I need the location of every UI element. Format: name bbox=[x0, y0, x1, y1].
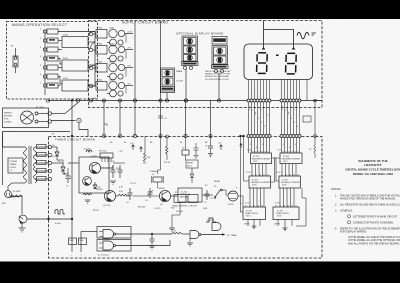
wire color label W3 bbox=[37, 161, 47, 165]
wire drop E23 to busA bbox=[166, 93, 168, 101]
wire column x185 bbox=[185, 101, 187, 137]
bus A (supply board bottom rail) bbox=[48, 100, 322, 102]
wire tap6 to J3 bbox=[58, 77, 62, 85]
terminal E3 bbox=[43, 48, 46, 51]
svg-text:.02: .02 bbox=[164, 118, 167, 120]
wire bundle IC202-IC203 bbox=[249, 188, 251, 207]
diode D6 bbox=[62, 163, 64, 167]
nand gate IC211b bbox=[103, 241, 114, 250]
plus sign bbox=[64, 173, 66, 175]
svg-text:CONNECTOR POINTS ON BOARD.: CONNECTOR POINTS ON BOARD. bbox=[353, 221, 394, 224]
fuse F1 bbox=[13, 56, 18, 67]
digit 2 seven-segment bbox=[286, 53, 297, 74]
junction x104 busB bbox=[102, 134, 105, 137]
svg-text:4: 4 bbox=[291, 118, 292, 120]
junction x72 busB bbox=[71, 135, 73, 137]
digit cell V101b bbox=[184, 46, 197, 54]
jumper block J2 bbox=[62, 60, 88, 71]
capacitor C6 trimmer bbox=[149, 188, 151, 192]
svg-text:R14: R14 bbox=[116, 168, 119, 170]
svg-text:S2: S2 bbox=[205, 185, 207, 187]
ground G7 bbox=[169, 227, 175, 229]
svg-text:Q102: Q102 bbox=[109, 44, 115, 46]
display module V101 outline bbox=[182, 36, 198, 62]
component C8 at x210 bbox=[210, 136, 212, 146]
digit cell V102b bbox=[214, 56, 227, 64]
label U2 bbox=[187, 163, 194, 168]
wire J3 to right bbox=[88, 85, 95, 87]
resistor R30 vertical bbox=[314, 145, 316, 153]
svg-text:c: c bbox=[261, 109, 262, 111]
spare cluster E23 outline bbox=[161, 68, 175, 93]
wire left vertical bbox=[2, 132, 4, 186]
wire crossover to supply edge 2 bbox=[89, 42, 95, 50]
rectifier D13 bbox=[96, 64, 107, 73]
wire vertical tap bus bbox=[44, 30, 46, 95]
IC 205 counter bbox=[279, 176, 301, 188]
wire color label W2 bbox=[37, 153, 47, 157]
svg-text:4 13 8: 4 13 8 bbox=[275, 203, 280, 205]
svg-text:ZD1: ZD1 bbox=[97, 187, 101, 189]
svg-text:9: 9 bbox=[236, 188, 237, 190]
svg-text:240V: 240V bbox=[63, 35, 69, 37]
jumper block J1 bbox=[62, 37, 88, 48]
wire color label W4 bbox=[37, 169, 47, 173]
svg-text:E7: E7 bbox=[180, 142, 182, 144]
SECTION: main display bbox=[244, 21, 316, 80]
rectifier D12 bbox=[96, 46, 107, 55]
svg-text:.01: .01 bbox=[126, 202, 129, 204]
wire bundle tiny labels bbox=[249, 109, 295, 114]
rectifier D11 bbox=[96, 30, 107, 39]
connector circles row busA right bbox=[280, 99, 283, 102]
svg-text:D101: D101 bbox=[97, 28, 103, 30]
svg-text:-5V: -5V bbox=[127, 84, 131, 86]
wire R25 to gate bbox=[183, 233, 190, 235]
svg-text:TRANS: TRANS bbox=[10, 163, 17, 166]
wire left drop to transformer primary bbox=[3, 131, 71, 133]
wire into display left bbox=[263, 21, 265, 50]
capacitor C3 bbox=[119, 165, 121, 170]
svg-text:b: b bbox=[255, 112, 256, 114]
svg-text:8: 8 bbox=[256, 147, 257, 149]
svg-text:RP1 10K: RP1 10K bbox=[99, 151, 107, 153]
SECTION: power transformer area bbox=[3, 99, 98, 256]
svg-text:MODELS GC-1092-D AND: MODELS GC-1092-D AND bbox=[205, 75, 229, 78]
svg-text:E9: E9 bbox=[52, 134, 54, 136]
edge connector circles bbox=[48, 145, 51, 148]
resistor R25 bbox=[172, 232, 183, 234]
wire stubs below IC203 bbox=[247, 220, 249, 227]
svg-text:3: 3 bbox=[255, 114, 256, 116]
svg-text:WIRING: WIRING bbox=[4, 113, 12, 115]
terminal E5 bbox=[43, 66, 46, 69]
wire bundle IC204-IC205 bbox=[281, 164, 283, 177]
wire crossover between columns bbox=[272, 158, 280, 181]
svg-text:6: 6 bbox=[262, 144, 263, 146]
SECTION: right border bbox=[303, 80, 322, 159]
terminal E7 bbox=[43, 84, 46, 87]
svg-text:417-801: 417-801 bbox=[176, 211, 183, 213]
wire IC212 out bbox=[201, 234, 222, 236]
resistor R10 vertical bbox=[143, 153, 146, 161]
svg-text:POWER: POWER bbox=[10, 161, 18, 163]
svg-text:3: 3 bbox=[288, 114, 289, 116]
diagonal transposition wire bbox=[65, 103, 78, 114]
wire x120 drop bbox=[119, 101, 121, 137]
wire crystal drop bbox=[157, 182, 159, 188]
svg-text:MM5369: MM5369 bbox=[180, 197, 189, 199]
svg-text:TRIAC CONTROL CIRCUIT: TRIAC CONTROL CIRCUIT bbox=[172, 205, 198, 208]
svg-text:+12V: +12V bbox=[127, 32, 133, 34]
wire stub x315 into busB junction bbox=[314, 135, 317, 138]
svg-text:3.: 3. bbox=[335, 210, 337, 213]
junction x104 busA bbox=[102, 99, 105, 102]
capacitor C2 bbox=[112, 165, 114, 170]
transistor Q7 bottom-left bbox=[19, 215, 27, 223]
display module V102 header bbox=[212, 37, 227, 45]
wire resistor to bus bbox=[8, 196, 22, 214]
svg-text:R15 1K: R15 1K bbox=[164, 162, 171, 164]
wire gate1 out bbox=[116, 233, 172, 235]
crystal Y1 bbox=[153, 177, 162, 182]
module V102 label strip bbox=[212, 65, 229, 69]
resistor R11 bbox=[118, 194, 127, 196]
svg-text:RESET: RESET bbox=[187, 163, 194, 165]
svg-text:GND: GND bbox=[92, 98, 97, 100]
svg-text:Q103: Q103 bbox=[109, 62, 115, 64]
wire plug to board edge lower bbox=[38, 121, 48, 123]
svg-text:E8: E8 bbox=[205, 142, 207, 144]
svg-text:Q101: Q101 bbox=[109, 28, 115, 30]
wire drop E21 to busA bbox=[185, 69, 187, 100]
svg-text:2: 2 bbox=[252, 110, 253, 112]
wire column x185 down bbox=[185, 136, 187, 150]
capacitor C1 electrolytic bbox=[67, 172, 69, 176]
spare label strip bbox=[161, 87, 175, 92]
wire tap5 bbox=[58, 67, 62, 69]
junction circle bbox=[314, 99, 317, 102]
wire x81 to gate input bbox=[81, 231, 97, 233]
svg-text:6: 6 bbox=[264, 126, 265, 128]
resistor label box RB bbox=[79, 238, 87, 245]
colon mark bbox=[276, 55, 279, 57]
cell labels bbox=[97, 28, 133, 86]
svg-text:9: 9 bbox=[250, 144, 251, 146]
digit cell V102a bbox=[214, 47, 227, 55]
resistor R4 bbox=[83, 193, 92, 195]
svg-text:SYMBOLS:: SYMBOLS: bbox=[340, 210, 353, 213]
arrow lamp right bbox=[292, 47, 296, 50]
pins IC204 top bbox=[282, 151, 284, 153]
IC 203 latch bbox=[243, 207, 266, 220]
svg-text:D5: D5 bbox=[52, 156, 54, 158]
+5 arrow A2 bbox=[140, 147, 143, 152]
ground G4 bbox=[208, 153, 213, 155]
junction circles bus B bbox=[118, 134, 121, 137]
mains operation select dashed box bbox=[7, 22, 98, 100]
diode D9 bbox=[190, 174, 194, 177]
wire plug to board edge upper bbox=[38, 113, 48, 115]
terminal E4 bbox=[43, 57, 46, 60]
svg-text:UNITS: UNITS bbox=[274, 224, 281, 226]
resistor R1 bbox=[11, 195, 22, 197]
label line cord bbox=[4, 113, 12, 124]
terminal E2 bbox=[43, 39, 46, 42]
ground C11 bbox=[194, 155, 199, 157]
junction bbox=[151, 233, 153, 235]
wire tap7 bbox=[58, 85, 60, 87]
wire lower plug lead bbox=[51, 120, 75, 122]
tiny tap labels bbox=[40, 29, 69, 85]
SECTION: IC grid bbox=[239, 135, 302, 231]
wire drop bbox=[314, 153, 316, 158]
svg-text:D5: D5 bbox=[52, 145, 54, 147]
SECTION: regulator cluster bbox=[52, 147, 126, 203]
wire primary bottom bbox=[12, 182, 25, 184]
svg-text:C6 5-25: C6 5-25 bbox=[154, 208, 161, 210]
svg-text:120VAC: 120VAC bbox=[4, 121, 12, 124]
wire neon bbox=[8, 183, 12, 191]
wire cell1 bbox=[125, 33, 133, 35]
transistor Q3 bbox=[104, 190, 115, 201]
svg-text:SUPPLY CIRCUIT BOARD: SUPPLY CIRCUIT BOARD bbox=[122, 20, 169, 24]
step waveform icon bbox=[206, 218, 216, 222]
svg-text:COLON: COLON bbox=[176, 81, 183, 83]
SECTION: mains select interior bbox=[11, 23, 95, 95]
connector circles row busA left bbox=[247, 99, 301, 138]
SECTION: scatter labels bbox=[2, 98, 312, 213]
supply circuit board dashed outline bbox=[89, 21, 323, 108]
jumper block J3 bbox=[62, 80, 88, 91]
svg-text:2: 2 bbox=[285, 110, 286, 112]
edge connector E12 bbox=[89, 48, 93, 52]
wire tap2 to J1 bbox=[58, 40, 62, 42]
svg-text:8: 8 bbox=[289, 147, 290, 149]
SECTION: line input bbox=[3, 99, 89, 185]
svg-text:6 2 3 7: 6 2 3 7 bbox=[246, 172, 252, 174]
connector circles row busB right bbox=[280, 135, 283, 138]
wire Q7 base row bbox=[27, 218, 48, 220]
wire drop E22 to busA bbox=[218, 73, 220, 101]
svg-text:.01: .01 bbox=[210, 198, 213, 200]
svg-text:R18: R18 bbox=[171, 208, 174, 210]
svg-text:MODEL GC-1092-D/GC-1093: MODEL GC-1092-D/GC-1093 bbox=[353, 172, 393, 176]
sine symbol bbox=[297, 32, 309, 39]
wire color label W5 bbox=[37, 177, 47, 181]
pins IC206 top bbox=[275, 205, 277, 207]
svg-text:C1: C1 bbox=[70, 177, 72, 179]
svg-text:7: 7 bbox=[267, 115, 268, 117]
vertical rail x307 bbox=[306, 80, 308, 101]
wire column x210 bbox=[210, 101, 212, 137]
wire bundle right bbox=[281, 80, 283, 154]
capacitor C12 bbox=[158, 115, 163, 117]
IC 202 counter bbox=[249, 176, 271, 188]
junction x72 y219 bbox=[71, 218, 73, 220]
wire crossover to supply edge 3 bbox=[89, 65, 95, 68]
svg-text:6 2 3 7: 6 2 3 7 bbox=[276, 172, 282, 174]
svg-text:DECADE COUNTER: DECADE COUNTER bbox=[251, 181, 270, 184]
relay driver box K2 bbox=[188, 195, 198, 203]
wire tap4 to J2 bbox=[58, 59, 62, 65]
resistor pack RP1 bbox=[100, 153, 113, 158]
ground IC203 bbox=[252, 226, 257, 229]
gate IC209a round bbox=[228, 191, 238, 201]
resistor R15 vertical bbox=[166, 137, 168, 147]
svg-text:DECADE COUNTER: DECADE COUNTER bbox=[281, 181, 300, 184]
junction x72 busA bbox=[71, 99, 73, 101]
note 3a circle bbox=[347, 215, 350, 218]
svg-text:6: 6 bbox=[295, 144, 296, 146]
arrow out bbox=[222, 233, 225, 236]
note 3b circle bbox=[347, 221, 350, 224]
wire V1 drop bbox=[79, 123, 88, 137]
waveform icon 120Hz bbox=[86, 150, 92, 152]
+5 arrow A1 bbox=[132, 145, 135, 150]
svg-text:3.58MHz: 3.58MHz bbox=[150, 171, 158, 173]
svg-text:+5V: +5V bbox=[111, 161, 115, 163]
wire Q7 collector bbox=[21, 223, 23, 228]
wire cell3 bbox=[125, 67, 133, 69]
svg-text:+5V: +5V bbox=[127, 48, 131, 50]
wire junction at 48,100 bbox=[46, 99, 49, 102]
SECTION: bottom gate cluster bbox=[97, 188, 306, 257]
junction circle E8 bbox=[76, 99, 79, 102]
module V102 pins bbox=[214, 69, 217, 72]
SECTION: optional display board bbox=[161, 32, 232, 103]
svg-text:4: 4 bbox=[258, 118, 259, 120]
relay driver box K1 bbox=[174, 195, 186, 203]
digit 1 seven-segment bbox=[257, 53, 268, 74]
capacitor C5 bbox=[129, 188, 131, 193]
svg-text:Q3 OSC: Q3 OSC bbox=[103, 205, 111, 207]
wire crossover to supply edge 1 bbox=[89, 32, 95, 35]
svg-text:MAINS OPERATION SELECT: MAINS OPERATION SELECT bbox=[12, 23, 67, 27]
edge connector E14 bbox=[89, 84, 93, 88]
svg-text:2N3904: 2N3904 bbox=[96, 189, 103, 191]
svg-text:4.: 4. bbox=[335, 228, 337, 231]
svg-text:D102: D102 bbox=[97, 44, 103, 46]
svg-text:120V: 120V bbox=[63, 78, 69, 80]
wire column x135 bbox=[134, 21, 136, 137]
svg-text:R13 47: R13 47 bbox=[93, 210, 99, 212]
transformer T1 primary winding bbox=[24, 147, 27, 183]
svg-text:TIMER CIRCUIT BOARD: TIMER CIRCUIT BOARD bbox=[55, 138, 96, 142]
wire U2 down bbox=[191, 168, 193, 174]
wire into display right bbox=[264, 30, 294, 50]
svg-text:4 13 8: 4 13 8 bbox=[245, 203, 250, 205]
wire bundle IC205-IC206 bbox=[279, 188, 281, 207]
connector circles at box right bbox=[48, 112, 51, 115]
pins IC201 top bbox=[252, 151, 254, 153]
ground G1 bbox=[19, 227, 26, 229]
IC 201 segment driver bbox=[251, 153, 272, 164]
svg-text:C1: C1 bbox=[66, 186, 68, 188]
svg-text:C5 .01: C5 .01 bbox=[130, 183, 136, 185]
pins IC203 top bbox=[245, 205, 247, 207]
rectifier D14 bbox=[96, 82, 107, 91]
SECTION: ic pin ticks bbox=[246, 151, 298, 207]
svg-text:1: 1 bbox=[249, 106, 250, 108]
SECTION: notes block bbox=[331, 187, 400, 245]
edge connector E11 bbox=[89, 32, 93, 36]
diode pair D12b bbox=[110, 55, 117, 62]
svg-text:54-893: 54-893 bbox=[10, 167, 17, 169]
svg-text:FOR: FOR bbox=[4, 119, 9, 121]
ground G6 bbox=[187, 242, 193, 244]
wires regulator bbox=[52, 146, 58, 148]
svg-text:R1 100K: R1 100K bbox=[13, 191, 21, 193]
vertical rail x72 bbox=[71, 102, 73, 252]
resistor label box RA bbox=[69, 238, 77, 245]
svg-text:E6: E6 bbox=[150, 142, 152, 144]
supply box inner bottom note bbox=[313, 100, 322, 102]
terminal E1 bbox=[43, 30, 46, 33]
svg-text:1: 1 bbox=[282, 106, 283, 108]
gate block outline A bbox=[97, 227, 131, 239]
svg-text:IC209: IC209 bbox=[228, 204, 234, 206]
svg-text:LETTERED POINTS IN MAIN CI: LETTERED POINTS IN MAIN CIRCUIT. bbox=[353, 215, 398, 218]
svg-text:QUAD LATCH: QUAD LATCH bbox=[245, 212, 258, 215]
regulator box outline bbox=[79, 157, 109, 193]
spare cell a bbox=[162, 70, 173, 77]
vertical rail x315 bbox=[314, 101, 316, 146]
svg-text:220V: 220V bbox=[63, 58, 69, 60]
spare cell b bbox=[162, 78, 173, 85]
svg-text:120 Hz: 120 Hz bbox=[84, 149, 90, 151]
svg-text:PAGES FIVE THROUGH NINE OF THE: PAGES FIVE THROUGH NINE OF THE MANUAL. bbox=[340, 198, 397, 201]
digit cell V101c bbox=[184, 55, 197, 62]
neon lamp NE1 bbox=[5, 191, 12, 198]
svg-text:5: 5 bbox=[241, 203, 242, 205]
zener ZD1 bbox=[94, 182, 96, 185]
svg-text:2.: 2. bbox=[335, 204, 337, 207]
svg-text:6: 6 bbox=[297, 126, 298, 128]
svg-text:1.: 1. bbox=[335, 195, 337, 198]
svg-text:FOR DISPLAY WIRING:: FOR DISPLAY WIRING: bbox=[340, 231, 367, 234]
plug P1 bbox=[21, 111, 34, 124]
wire IC212 in stub bbox=[189, 239, 191, 244]
svg-text:2N3904: 2N3904 bbox=[158, 188, 165, 190]
wire primary top bbox=[3, 132, 26, 148]
timebase IC1 box bbox=[178, 188, 202, 202]
pins IC202 top bbox=[251, 174, 253, 176]
connector circles row busB left bbox=[247, 135, 250, 138]
IC 206 latch bbox=[273, 207, 299, 220]
note text block bbox=[205, 70, 231, 81]
svg-text:7 13: 7 13 bbox=[277, 150, 281, 152]
component D7 at x185 bbox=[182, 150, 189, 155]
+5 arrow at IC rail bbox=[240, 143, 243, 148]
transformer T1 secondary winding bbox=[34, 147, 37, 183]
secondary tap wires bbox=[35, 146, 48, 148]
nand gate IC211a bbox=[103, 230, 114, 239]
wire bundle pin labels bbox=[249, 106, 298, 149]
svg-text:D6: D6 bbox=[58, 161, 60, 163]
wire tap3 bbox=[58, 49, 62, 51]
wire tap1 to bus bbox=[58, 31, 95, 33]
component box E31 bbox=[303, 116, 311, 122]
gate IC212b bbox=[212, 223, 221, 231]
svg-text:c: c bbox=[294, 109, 295, 111]
junction busB x240 bbox=[239, 135, 241, 137]
transistor Q4 bbox=[159, 190, 170, 201]
tick mark x104 bbox=[104, 124, 107, 126]
svg-text:IC 211 4011: IC 211 4011 bbox=[98, 255, 109, 257]
svg-text:QUAD LATCH: QUAD LATCH bbox=[276, 212, 289, 215]
junction circles bus A bbox=[89, 99, 92, 102]
